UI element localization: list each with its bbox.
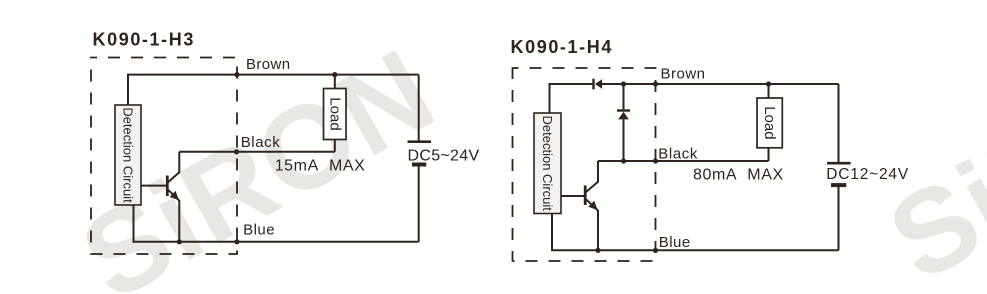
- wire load stub bottom: [334, 140, 336, 152]
- battery BT1 wire top: [418, 75, 420, 141]
- node blue at sensor edge right: [653, 248, 658, 253]
- svg-text:DC5~24V: DC5~24V: [408, 147, 480, 164]
- svg-text:Detection Circuit: Detection Circuit: [121, 107, 136, 203]
- label DC12~24V: [826, 166, 909, 183]
- svg-text:Blue: Blue: [659, 234, 691, 251]
- transistor Q1 base wire: [141, 185, 166, 187]
- node blue at emitter: [177, 239, 182, 244]
- svg-text:80mA MAX: 80mA MAX: [693, 167, 784, 184]
- load RL2: [757, 98, 782, 148]
- label Black: [241, 134, 281, 151]
- svg-text:Load: Load: [761, 106, 778, 139]
- svg-text:Black: Black: [658, 145, 698, 162]
- wire brown (U1 top to battery): [128, 75, 419, 105]
- node black at sensor edge right: [653, 158, 658, 163]
- diode D1 (series, cathode left): [594, 79, 603, 90]
- node brown at sensor edge: [653, 81, 658, 86]
- title K090-1-H3: [93, 30, 195, 50]
- transistor Q1 emitter: [168, 190, 179, 242]
- svg-text:Load: Load: [326, 97, 343, 130]
- detection circuit block U1: [115, 105, 141, 205]
- battery BT1 wire bottom: [418, 167, 420, 242]
- node brown at load tap: [766, 81, 771, 86]
- battery BT1 negative plate: [412, 163, 426, 167]
- node black at sensor edge: [234, 149, 239, 154]
- wire load stub top: [334, 75, 336, 89]
- transistor Q1 base bar: [166, 176, 169, 197]
- wire blue right: [552, 214, 839, 251]
- svg-text:Brown: Brown: [661, 66, 706, 83]
- node brown at sensor edge: [234, 72, 239, 77]
- transistor Q1 collector: [168, 152, 179, 183]
- svg-text:Black: Black: [241, 134, 281, 151]
- transistor Q2 emitter arrow: [588, 201, 597, 210]
- battery BT2 positive plate: [827, 162, 851, 165]
- detection circuit block U2: [534, 113, 561, 214]
- node blue at emitter right: [595, 248, 600, 253]
- svg-text:Brown: Brown: [246, 56, 291, 73]
- wire brown left part (U2 top to diode D1): [550, 84, 593, 113]
- label Blue: [243, 222, 275, 239]
- transistor Q2 base wire: [561, 195, 584, 197]
- label Black right: [658, 145, 698, 162]
- label Blue right: [659, 234, 691, 251]
- wire black: [179, 151, 334, 153]
- node black at diode D2: [621, 158, 626, 163]
- transistor Q2 collector: [586, 161, 598, 192]
- svg-text:DC12~24V: DC12~24V: [826, 166, 909, 183]
- watermark SiRON right (partial): [868, 5, 987, 294]
- transistor Q1 emitter arrow: [170, 191, 179, 200]
- svg-text:15mA MAX: 15mA MAX: [275, 158, 366, 175]
- label 15mA MAX: [275, 158, 366, 175]
- svg-text:Blue: Blue: [243, 222, 275, 239]
- wire load stub top right: [768, 84, 770, 98]
- battery BT2 wire bottom: [838, 187, 840, 250]
- svg-text:K090-1-H4: K090-1-H4: [511, 37, 613, 57]
- watermark SiRON left: [61, 24, 456, 294]
- sensor outline (dashed box) right: [513, 68, 656, 261]
- svg-text:K090-1-H3: K090-1-H3: [93, 30, 195, 50]
- wire brown right part (diode to battery): [602, 83, 839, 85]
- wire black right: [598, 160, 769, 162]
- title K090-1-H4: [511, 37, 613, 57]
- svg-text:Detection Circuit: Detection Circuit: [540, 116, 555, 212]
- node brown at diode D2 tap: [621, 81, 626, 86]
- battery BT2 wire top: [838, 84, 840, 162]
- wire load stub bottom right: [768, 148, 770, 161]
- load RL1: [324, 89, 347, 140]
- diode D2 (shunt, cathode up): [617, 111, 630, 120]
- transistor Q2 base bar: [584, 185, 587, 205]
- diode D2 wire top: [623, 84, 625, 109]
- sensor outline (dashed box): [91, 58, 237, 255]
- battery BT2 negative plate: [831, 183, 846, 187]
- label DC5~24V: [408, 147, 480, 164]
- node brown at load tap: [332, 72, 337, 77]
- label 80mA MAX: [693, 167, 784, 184]
- label Brown right: [661, 66, 706, 83]
- diode D2 wire bottom: [623, 119, 625, 161]
- wire blue: [134, 205, 419, 242]
- battery BT1 positive plate: [408, 140, 432, 143]
- label Brown: [246, 56, 291, 73]
- node blue at sensor edge: [234, 239, 239, 244]
- transistor Q2 emitter: [586, 199, 598, 250]
